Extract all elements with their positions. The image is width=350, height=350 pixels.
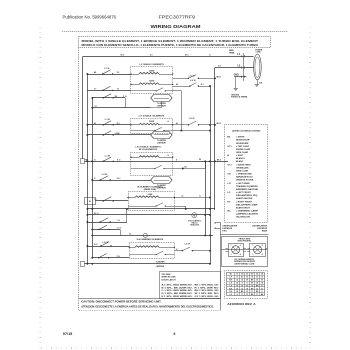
svg-text:BK-8: BK-8	[217, 159, 221, 161]
svg-text:R.F.: R.F.	[227, 201, 231, 203]
switch G2 row1	[103, 124, 104, 125]
vertical connector x120	[120, 230, 122, 236]
wire left bus 2	[87, 74, 89, 264]
svg-text:L.S. W: L.S. W	[103, 242, 109, 244]
TOD control circle	[192, 213, 197, 218]
svg-text:18: 18	[256, 277, 258, 279]
svg-text:W: W	[227, 155, 229, 157]
caution strip top line	[79, 298, 221, 300]
svg-text:12: 12	[246, 291, 248, 293]
svg-text:8: 8	[262, 291, 263, 293]
svg-text:JAUNE CLAIR: JAUNE CLAIR	[236, 148, 250, 151]
svg-text:10: 10	[256, 288, 258, 290]
svg-text:= WHITE: = WHITE	[236, 137, 245, 139]
wire row y235	[92, 235, 213, 237]
notes box	[160, 272, 221, 299]
svg-text:L.R.: L.R.	[227, 183, 231, 185]
svg-text:= LEFT REAR: = LEFT REAR	[236, 182, 250, 185]
svg-text:1: 1	[252, 245, 253, 247]
svg-text:WIRES IN OVEN: WIRES IN OVEN	[162, 277, 176, 279]
svg-text:L2-BK: L2-BK	[115, 133, 121, 135]
divider vertical line	[220, 222, 222, 310]
svg-text:CAUTION: DISCONNECT POWER BEF: CAUTION: DISCONNECT POWER BEFORE SERVICI…	[81, 299, 161, 303]
wire G5 right	[174, 250, 182, 252]
svg-text:1200W: 1200W	[149, 80, 155, 82]
limiter front view box	[222, 237, 268, 267]
svg-text:L.F. DOUBLE / ELEMENTS: L.F. DOUBLE / ELEMENTS	[139, 116, 165, 118]
svg-text:1: 1	[231, 245, 232, 247]
svg-text:D1: D1	[199, 159, 201, 161]
wire right bus B	[205, 161, 207, 235]
wire ground drop	[235, 77, 237, 88]
wire G3 right	[173, 168, 206, 170]
svg-text:REAR: REAR	[262, 230, 268, 233]
svg-text:GRIS/BLANC: GRIS/BLANC	[236, 166, 249, 169]
svg-text:O.R: O.R	[227, 174, 231, 176]
limiter 1	[151, 95, 172, 102]
svg-text:BU-12: BU-12	[217, 77, 222, 79]
svg-text:DELANTERO DER.: DELANTERO DER.	[236, 203, 258, 206]
vertical connector x127	[126, 209, 128, 222]
svg-text:TRASERO IZQUIERDO: TRASERO IZQUIERDO	[236, 185, 258, 188]
svg-text:GY: GY	[94, 88, 96, 90]
wire G5 row2	[92, 257, 129, 259]
limiter 2	[151, 132, 172, 139]
svg-text:GRIS CLAIR: GRIS CLAIR	[236, 169, 249, 172]
svg-text:BK-8: BK-8	[121, 54, 125, 56]
svg-text:L-1 W: L-1 W	[104, 68, 109, 70]
resistor G5	[135, 246, 159, 248]
switch inside G4	[156, 205, 157, 206]
svg-text:NARANJA ROJO: NARANJA ROJO	[236, 176, 253, 179]
terminal block TB2	[81, 262, 85, 267]
svg-text:FPEC3077RF9: FPEC3077RF9	[159, 14, 196, 19]
svg-text:GND: GND	[234, 75, 239, 77]
legend box	[225, 125, 268, 223]
svg-text:ATENCION: DESCONECTE LA ENERGI: ATENCION: DESCONECTE LA ENERGIA ANTES DE…	[81, 304, 214, 308]
wire G1 row1	[87, 74, 131, 76]
svg-text:AVANT DROIT: AVANT DROIT	[236, 206, 251, 209]
switch limiter 2	[103, 134, 104, 135]
wire row y229	[92, 229, 120, 231]
svg-text:2: 2	[262, 245, 263, 247]
svg-text:3: 3	[252, 254, 253, 256]
svg-text:= WHITE GRAY: = WHITE GRAY	[236, 163, 251, 166]
svg-text:R-1: R-1	[117, 72, 120, 74]
svg-text:L.S. W: L.S. W	[189, 118, 195, 120]
switch G1 row1	[102, 73, 103, 74]
svg-text:2500W: 2500W	[149, 70, 155, 72]
svg-text:L-1 W: L-1 W	[105, 119, 110, 121]
svg-text:16: 16	[256, 274, 258, 276]
crop mark dotted line left	[40, 27, 41, 28]
switch G5 row1	[100, 245, 101, 246]
svg-text:(WARM ZONE): (WARM ZONE)	[144, 188, 157, 191]
svg-text:W.L.: W.L.	[227, 211, 232, 213]
svg-text:TERM.: TERM.	[229, 52, 235, 54]
wire G2 right row2	[173, 130, 210, 132]
crop mark dotted line right	[310, 27, 311, 28]
switch inside G2	[154, 130, 155, 131]
svg-text:HL: HL	[89, 201, 91, 203]
svg-text:GY 1 SPL RED. NO: GY 1 SPL RED. NO	[195, 296, 219, 298]
svg-text:= WARMING LAMP: = WARMING LAMP	[236, 210, 259, 213]
svg-text:BU-2: BU-2	[117, 178, 121, 180]
switch limiter 3	[100, 179, 101, 180]
svg-text:BLANCO: BLANCO	[236, 157, 245, 160]
svg-text:PUESTO A TIERRA: PUESTO A TIERRA	[231, 95, 248, 98]
ground symbol main	[234, 88, 238, 90]
svg-text:LIMITEUR: LIMITEUR	[156, 266, 165, 268]
svg-text:Y-1: Y-1	[117, 88, 120, 90]
svg-text:8: 8	[242, 283, 243, 285]
crop mark dotted line bottom	[41, 348, 42, 349]
svg-text:A 1 SPL- RED WIRE-NO.: A 1 SPL- RED WIRE-NO.	[162, 284, 194, 287]
wire G2 right row1	[173, 124, 189, 126]
wire G5 row1	[87, 246, 129, 248]
wires to right column	[215, 222, 220, 224]
svg-text:Publication No. 5999664876: Publication No. 5999664876	[63, 14, 117, 19]
svg-text:NEGRO/NOIR: NEGRO/NOIR	[236, 140, 250, 142]
switch inside G3	[154, 168, 155, 169]
svg-text:16: 16	[241, 288, 243, 290]
svg-text:= RIGHT FRONT: = RIGHT FRONT	[236, 201, 253, 203]
svg-text:LIMITEUR: LIMITEUR	[157, 142, 166, 144]
switch G5 row2	[98, 257, 99, 258]
svg-text:E 1 SPL- RED WIRE-NO.: E 1 SPL- RED WIRE-NO.	[162, 296, 194, 298]
wire G2 row1	[87, 124, 131, 126]
svg-text:BK 1 SPL RED. NO: BK 1 SPL RED. NO	[195, 285, 219, 287]
svg-text:R.R.: R.R.	[229, 280, 233, 282]
header rule dotted	[62, 30, 63, 33]
svg-text:= WHIT: = WHIT	[236, 155, 244, 157]
svg-text:L-1 W: L-1 W	[105, 155, 110, 157]
svg-text:VISTA FRONTAL: VISTA FRONTAL	[237, 240, 252, 243]
svg-text:DE LOS ELEMENTOS: DE LOS ELEMENTOS	[139, 149, 158, 151]
svg-text:GRIS CLAIR: GRIS CLAIR	[236, 151, 249, 154]
svg-text:10: 10	[261, 274, 263, 276]
switch loop	[103, 97, 104, 98]
svg-text:BLANC: BLANC	[236, 160, 244, 163]
wire TOD row	[87, 214, 210, 216]
svg-text:B 1 SPL- BK JUMP-NO.: B 1 SPL- BK JUMP-NO.	[162, 287, 194, 289]
svg-text:L5: L5	[181, 196, 183, 198]
wire to limiter 3	[92, 180, 150, 182]
svg-text:B-1: B-1	[185, 167, 188, 169]
wire left bus L1 vertical	[82, 56, 84, 159]
svg-text:SPL-RED: SPL-RED	[162, 274, 171, 276]
svg-text:18: 18	[241, 274, 243, 276]
wire loop top	[92, 97, 125, 99]
svg-text:S-1: S-1	[201, 84, 204, 86]
wire bottom rail	[84, 263, 210, 265]
svg-text:= TINT LIGHT: = TINT LIGHT	[236, 146, 250, 148]
svg-text:T-LIMITER: T-LIMITER	[156, 261, 165, 263]
svg-text:12: 12	[246, 294, 248, 296]
svg-text:= LEFT FRONT: = LEFT FRONT	[236, 192, 251, 194]
wire G1 right row2	[173, 86, 190, 88]
svg-text:8: 8	[247, 283, 248, 285]
svg-text:CORD: CORD	[255, 51, 261, 53]
switch main bus	[103, 161, 104, 162]
element box G2	[131, 119, 173, 134]
limiter section divider	[220, 234, 268, 236]
wire right bus A	[210, 86, 212, 264]
svg-text:L.S. W: L.S. W	[190, 80, 196, 82]
wire gauge table outer dashed box	[225, 271, 268, 299]
svg-text:W-8: W-8	[218, 66, 221, 68]
svg-text:MODELO CON ELEMENTO SENCILLO,: MODELO CON ELEMENTO SENCILLO, 1 ELEMENTO…	[82, 43, 259, 47]
svg-text:A21088401 REV. A: A21088401 REV. A	[227, 302, 256, 306]
svg-text:6: 6	[174, 332, 176, 336]
svg-text:L.F. SINGLE / ELEMENTS: L.F. SINGLE / ELEMENTS	[139, 64, 164, 66]
svg-text:10: 10	[246, 274, 248, 276]
wire right bus 3 vertical	[214, 68, 216, 211]
wire row y222	[87, 222, 127, 224]
svg-text:F.R.D.: F.R.D.	[222, 231, 227, 233]
svg-text:BK 1 SPL RED. NO: BK 1 SPL RED. NO	[195, 290, 219, 292]
outer dashed border left	[78, 48, 80, 311]
svg-text:NOIR/NOIRE: NOIR/NOIRE	[236, 143, 249, 145]
switch inside G1	[156, 90, 157, 91]
element box G4	[129, 192, 175, 211]
svg-text:16: 16	[241, 285, 243, 287]
switch inside G5	[156, 254, 157, 255]
svg-text:S1: S1	[94, 159, 96, 161]
limiter wire through	[222, 249, 268, 251]
wire G4 right	[174, 197, 210, 199]
svg-text:3: 3	[231, 254, 232, 256]
wire G1 right row1	[173, 78, 189, 80]
element box G5	[130, 243, 175, 259]
switch G4 row	[103, 200, 104, 201]
power cord receptacle ellipse	[254, 54, 262, 80]
svg-text:L-2 W: L-2 W	[102, 174, 107, 176]
svg-text:R-2: R-2	[117, 123, 120, 125]
svg-text:VALORACION: VALORACION	[236, 216, 250, 219]
ground symbol EX	[257, 80, 259, 84]
svg-text:L.S. W: L.S. W	[185, 244, 191, 246]
svg-text:10: 10	[236, 280, 238, 282]
outer dashed border bottom	[79, 310, 221, 312]
lamp circle on wire	[143, 233, 147, 237]
svg-text:N.M. WARMER / ELEMENTS: N.M. WARMER / ELEMENTS	[137, 238, 164, 241]
wire GND stub	[234, 76, 246, 78]
svg-text:W 1 SPL BK. NO: W 1 SPL BK. NO	[195, 293, 220, 295]
svg-text:BK-12: BK-12	[94, 213, 99, 215]
svg-text:DELANTERO IZQ.: DELANTERO IZQ.	[236, 194, 259, 197]
limiter 3	[151, 177, 172, 184]
svg-text:ORANGE ROUGE: ORANGE ROUGE	[236, 179, 254, 182]
svg-text:V1: V1	[199, 196, 201, 198]
svg-text:LEGEND | LEYENDA | LEGENDE: LEGEND | LEYENDA | LEGENDE	[232, 130, 261, 133]
svg-text:LAMPARA CALIENTE: LAMPARA CALIENTE	[236, 213, 259, 216]
wire loop bottom	[92, 107, 150, 109]
limiter switch left box	[229, 244, 244, 257]
svg-text:8: 8	[237, 294, 238, 296]
svg-text:16: 16	[236, 285, 238, 287]
svg-text:LIMITEUR: LIMITEUR	[157, 105, 166, 107]
wire L1 top feeder	[83, 56, 254, 58]
svg-text:WIRING DIAGRAM: WIRING DIAGRAM	[151, 24, 201, 29]
limiter switch right box	[250, 244, 266, 257]
svg-text:2: 2	[240, 245, 241, 247]
svg-text:16: 16	[241, 280, 243, 282]
element box G1	[131, 67, 173, 94]
wire gauge table	[227, 273, 265, 296]
svg-text:R 1 SPL JMP. NO: R 1 SPL JMP. NO	[195, 287, 220, 289]
svg-text:16: 16	[246, 277, 248, 279]
chain vertical from G1 switch to G2 row	[173, 90, 182, 92]
svg-text:R-10: R-10	[117, 159, 120, 161]
svg-text:R-8: R-8	[150, 54, 153, 56]
svg-text:DOOR LATCH: DOOR LATCH	[162, 278, 177, 281]
svg-text:12: 12	[261, 277, 263, 279]
wire G1 row2	[87, 90, 131, 92]
model description box	[79, 37, 271, 48]
svg-text:C 1 SPL- RED WIRE-NO.: C 1 SPL- RED WIRE-NO.	[162, 290, 194, 292]
wire to limiter 2	[87, 134, 150, 136]
svg-text:L.F.: L.F.	[227, 192, 231, 194]
wire G4 switch right	[174, 206, 185, 208]
svg-text:HORLOGE: HORLOGE	[190, 225, 200, 227]
switch row y229	[98, 229, 99, 230]
resistor G3	[139, 156, 159, 158]
switch row y222	[100, 221, 101, 222]
wire G4 row	[95, 200, 128, 202]
svg-text:D 1 SPL- BK WIRE-NO.: D 1 SPL- BK WIRE-NO.	[162, 293, 194, 295]
svg-text:= ORANGE RED: = ORANGE RED	[236, 173, 252, 176]
svg-text:BU-12: BU-12	[217, 123, 222, 125]
svg-text:ARRIERE GAUCHE: ARRIERE GAUCHE	[236, 188, 259, 191]
svg-text:R.R.: R.R.	[229, 288, 233, 290]
terminal block TB1	[81, 159, 85, 164]
wire main mid bus	[84, 161, 228, 163]
wire L2 feeder	[215, 67, 254, 69]
relay rect G4	[85, 198, 96, 205]
switch G1 row2	[102, 90, 103, 91]
svg-text:LIMITE NORMAL CLOSE: LIMITE NORMAL CLOSE	[234, 262, 255, 265]
terminal block line	[243, 53, 245, 81]
wire left bus 3	[92, 98, 94, 258]
svg-text:3000W: 3000W	[149, 121, 155, 123]
svg-text:W-12: W-12	[94, 244, 98, 246]
svg-text:W.L.: W.L.	[129, 234, 133, 236]
svg-text:07/15: 07/15	[63, 332, 73, 336]
element box G3	[131, 153, 173, 176]
svg-text:J2: J2	[209, 54, 211, 56]
svg-text:AVANT GAUCHE: AVANT GAUCHE	[236, 197, 253, 200]
svg-text:BK-8: BK-8	[185, 54, 189, 56]
wire bus y209	[87, 208, 215, 210]
wire loop right vertical	[125, 98, 127, 108]
